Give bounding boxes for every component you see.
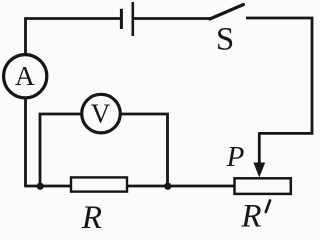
wire: battery to switch (134, 17, 211, 20)
label R' (240, 199, 270, 235)
svg-text:A: A (15, 60, 35, 91)
wiper P arrow (253, 132, 265, 177)
svg-text:V: V (91, 99, 111, 129)
battery B1 (121, 2, 132, 36)
junction node (right) (164, 183, 171, 190)
svg-text:S: S (216, 22, 234, 58)
junction node (left) (37, 183, 44, 190)
wire: bottom rail (24, 185, 234, 188)
wire: switch to top-right corner and down right side to wiper lead (246, 18, 312, 133)
switch S blade (210, 5, 244, 20)
svg-text:R: R (240, 199, 261, 234)
rheostat R' (235, 178, 291, 194)
ammeter A (4, 55, 47, 98)
wire: voltmeter branch loop (40, 114, 168, 186)
svg-text:P: P (226, 141, 245, 173)
svg-text:R: R (81, 200, 102, 233)
voltmeter V (82, 94, 121, 133)
wire: left vertical + top-left horizontal to battery (26, 19, 121, 187)
resistor R (71, 177, 127, 191)
